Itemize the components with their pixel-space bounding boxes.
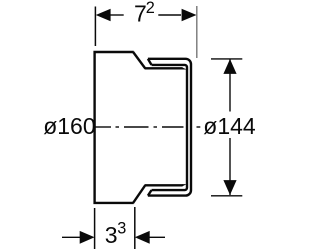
extension bar top <box>211 58 242 60</box>
cap lip fold bottom <box>148 190 152 196</box>
dimension 3 (bottom, wall offset) <box>62 207 165 249</box>
pipe outer surface bottom <box>145 184 183 186</box>
cap sleeve inner contour <box>152 65 188 190</box>
arrowhead pointing left <box>135 231 150 244</box>
extension line right <box>134 207 136 249</box>
dimension ø144 (right diameter) <box>203 59 256 196</box>
pipe tip chamfer top <box>182 67 187 69</box>
cap lip fold top <box>148 59 152 65</box>
dimension 7 (top width) <box>95 0 196 58</box>
dimension line right tail <box>149 236 165 238</box>
dimension line upper segment <box>229 59 231 112</box>
extension line left <box>94 7 96 47</box>
svg-text:3: 3 <box>117 219 126 237</box>
svg-text:2: 2 <box>146 0 155 17</box>
extension bar bottom <box>211 195 242 197</box>
centerline (dash-dot axis) <box>95 126 200 128</box>
extension line right <box>196 6 198 58</box>
body outline (pipe end, left block) <box>95 52 183 203</box>
arrowhead right <box>182 9 197 22</box>
arrowhead down <box>223 180 236 195</box>
svg-text:3: 3 <box>105 222 118 248</box>
dimension line left tail <box>110 14 124 16</box>
dimension line lower segment <box>229 138 231 195</box>
dimension line right tail <box>158 14 181 16</box>
dimension line left tail <box>62 236 81 238</box>
arrowhead left <box>96 9 111 22</box>
bottom chamfer <box>133 185 145 203</box>
svg-text:ø144: ø144 <box>203 113 256 139</box>
arrowhead pointing right <box>80 231 95 244</box>
cap sleeve outer contour <box>148 59 191 196</box>
extension line left <box>94 208 96 249</box>
pipe tip chamfer bottom <box>182 184 187 186</box>
top chamfer <box>133 52 145 68</box>
pipe outer surface top <box>145 67 183 69</box>
svg-text:ø160: ø160 <box>43 113 95 139</box>
arrowhead up <box>223 59 236 74</box>
